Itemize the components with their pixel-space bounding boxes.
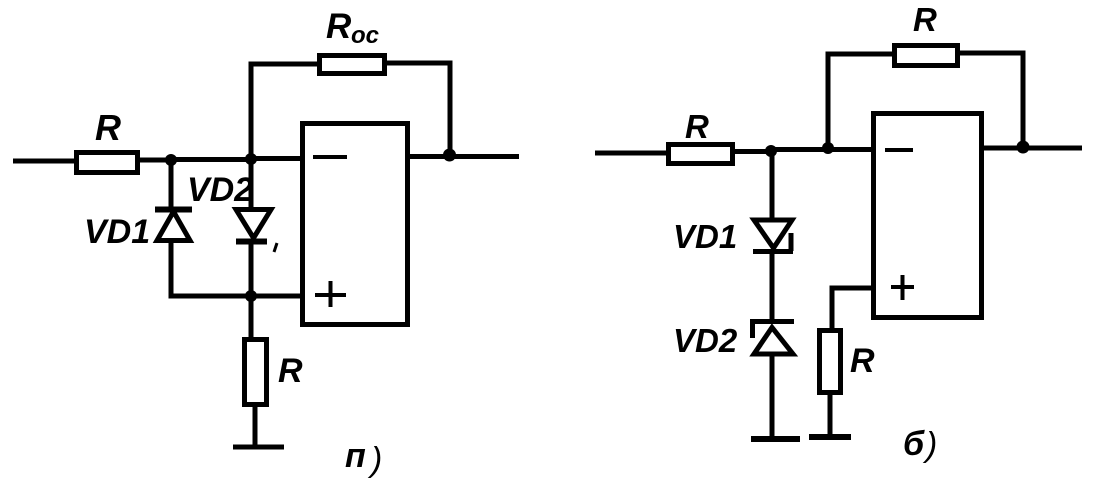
op-amp U1 minus sign (313, 155, 347, 159)
wire node A down to VD1 (169, 160, 174, 209)
diode VD1 cathode bar (155, 207, 192, 213)
wire feedback right side down to output node (385, 63, 450, 156)
wire node B down to VD2 (249, 159, 254, 209)
zener VD2 triangle (754, 328, 793, 355)
wire resistor to ground (b) (828, 392, 833, 437)
node C junction (245, 290, 257, 302)
wire node E to node F to op-amp inverting input (771, 147, 874, 152)
op-amp U1 body (303, 124, 408, 325)
node G output junction (1017, 141, 1030, 154)
svg-text:R: R (850, 342, 875, 380)
zener VD1 triangle (754, 220, 792, 248)
wire input lead (a) (13, 159, 76, 164)
zener VD2 cathode bar with hook (750, 321, 794, 338)
resistor Roc feedback (320, 56, 385, 74)
op-amp U2 minus sign (885, 148, 913, 152)
wire VD2 down to ground (770, 354, 775, 439)
op-amp U2 plus sign (891, 275, 914, 300)
svg-text:VD2: VD2 (673, 322, 738, 359)
svg-text:б: б (903, 425, 925, 463)
svg-text:oc: oc (351, 22, 379, 49)
svg-text:R: R (913, 1, 937, 38)
svg-text:R: R (278, 352, 303, 390)
wire feedback right side down to output node (b) (955, 53, 1023, 148)
node F feedback tap junction (822, 142, 834, 154)
resistor R feedback (b) (895, 46, 958, 66)
wire input lead (b) (595, 151, 668, 156)
op-amp U2 body (874, 114, 982, 318)
resistor R grounding (b) (820, 331, 841, 393)
diode VD1 triangle (157, 212, 190, 241)
resistor R input (b) (669, 145, 733, 164)
diode VD2 cathode bar (236, 239, 267, 245)
svg-text:VD1: VD1 (84, 213, 150, 251)
wire output lead (b) (981, 146, 1082, 151)
svg-text:R: R (95, 107, 121, 148)
wire op-amp noninverting input to grounding resistor (832, 288, 874, 330)
svg-text:R: R (685, 108, 709, 145)
wire node E down to zener VD1 (770, 151, 775, 220)
op-amp U1 plus sign (315, 281, 346, 307)
node D output junction (443, 149, 456, 162)
ground bar zener branch (b) (751, 436, 800, 442)
stray tick mark right of VD2 (274, 243, 277, 252)
wire feedback left vertical (b) (828, 54, 894, 150)
node B junction (245, 153, 257, 165)
wire resistor to node E (733, 149, 771, 154)
zener VD1 cathode bar with hook (753, 233, 793, 252)
wire output lead (a) (407, 154, 519, 159)
wire resistor to ground (a) (253, 404, 258, 447)
resistor R input (a) (77, 153, 138, 173)
svg-text:п: п (345, 437, 366, 475)
svg-text:VD2: VD2 (187, 171, 253, 209)
wire resistor to node A (140, 158, 171, 163)
wire VD2 cathode down through node C to resistor (249, 241, 254, 339)
ground bar resistor branch (b) (809, 434, 851, 440)
wire node B to op-amp inverting input (251, 156, 302, 161)
ground bar (a) (233, 445, 284, 450)
svg-text:R: R (326, 7, 352, 46)
svg-text:VD1: VD1 (673, 218, 737, 255)
resistor R grounding (a) (245, 340, 267, 405)
node E junction (765, 145, 777, 157)
wire VD1 to VD2 (770, 251, 775, 322)
wire node A to node B (171, 157, 251, 162)
diode VD2 triangle (236, 210, 271, 239)
wire bottom rail to op-amp noninverting input (169, 294, 303, 299)
node A junction (165, 154, 177, 166)
wire VD1 anode down to bottom rail (169, 240, 174, 298)
wire feedback left vertical (a) (251, 64, 319, 158)
